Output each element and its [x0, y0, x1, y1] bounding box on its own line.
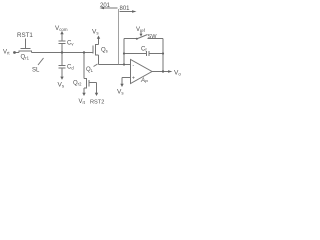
svg-text:Cv: Cv — [67, 41, 74, 47]
svg-text:Vs: Vs — [117, 89, 124, 96]
svg-text:Vrt: Vrt — [79, 99, 86, 105]
svg-text:QL: QL — [86, 67, 94, 73]
svg-text:Vo: Vo — [174, 70, 181, 77]
svg-text:RST1: RST1 — [17, 32, 33, 39]
svg-text:-: - — [133, 63, 135, 69]
svg-text:Vrt: Vrt — [3, 50, 10, 56]
svg-text:801: 801 — [120, 6, 131, 12]
svg-text:201: 201 — [100, 3, 111, 9]
svg-text:Qr2: Qr2 — [73, 81, 82, 87]
svg-text:Qs: Qs — [101, 48, 108, 54]
svg-text:Qr1: Qr1 — [21, 55, 30, 61]
svg-text:Vs: Vs — [58, 82, 65, 89]
svg-text:SW: SW — [148, 34, 158, 40]
svg-text:SL: SL — [32, 68, 40, 74]
svg-text:Cd: Cd — [67, 65, 74, 71]
svg-text:Cf: Cf — [141, 47, 147, 53]
svg-text:AP: AP — [140, 78, 148, 84]
svg-text:Vref: Vref — [136, 27, 146, 33]
svg-text:Vs: Vs — [92, 29, 99, 36]
svg-text:RST2: RST2 — [90, 100, 104, 106]
svg-text:Vcom: Vcom — [55, 25, 68, 32]
svg-text:+: + — [132, 76, 135, 82]
